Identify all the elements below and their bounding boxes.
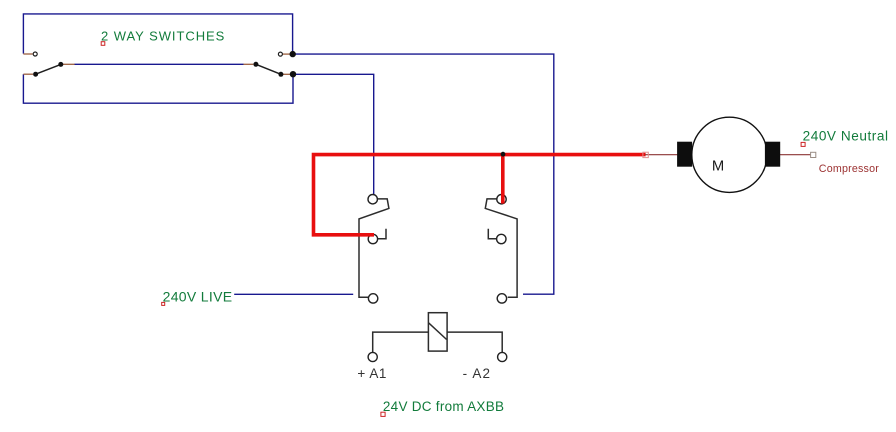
svg-text:Compressor: Compressor <box>819 163 879 175</box>
svg-text:+ A1: + A1 <box>357 366 387 381</box>
svg-text:24V DC from AXBB: 24V DC from AXBB <box>383 399 504 414</box>
svg-text:- A2: - A2 <box>463 366 492 381</box>
svg-text:M: M <box>712 159 724 175</box>
svg-text:240V Neutral: 240V Neutral <box>803 129 889 144</box>
svg-text:2 WAY SWITCHES: 2 WAY SWITCHES <box>101 28 225 43</box>
svg-text:240V LIVE: 240V LIVE <box>163 288 233 304</box>
